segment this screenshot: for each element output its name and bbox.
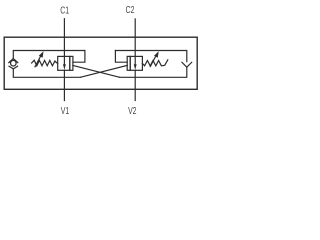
wire left check branch bottom — [13, 69, 80, 77]
wire RV2 cross pilot diagonal — [80, 65, 127, 77]
check valve CV1 ball — [11, 60, 17, 66]
label C1 — [60, 4, 69, 16]
relief valve RV1 flow arrow — [63, 56, 65, 65]
wire RV1 cross pilot diagonal — [73, 65, 120, 77]
svg-text:V1: V1 — [61, 105, 70, 117]
wire left check branch top — [13, 51, 85, 59]
relief valve RV1 pilot piston — [70, 56, 73, 70]
wire right check branch bottom — [120, 67, 187, 77]
svg-text:V2: V2 — [128, 105, 137, 117]
svg-text:C1: C1 — [60, 4, 69, 16]
wire C2 port line — [134, 19, 136, 57]
svg-text:C2: C2 — [126, 4, 135, 16]
spring S2 — [142, 60, 167, 66]
wire C1 port line — [63, 19, 65, 57]
spring S1 — [32, 60, 58, 66]
wire RV1 pilot hook — [73, 51, 85, 63]
wire V2 port line — [134, 70, 136, 100]
adjustment arrow A2 — [150, 55, 156, 67]
check valve CV1 seat upper — [9, 59, 18, 63]
wire right check branch top — [115, 51, 186, 62]
relief valve RV2 pilot piston — [127, 56, 130, 70]
label V1 — [61, 105, 70, 117]
adjustment arrow A1 — [35, 55, 41, 67]
relief valve RV2 body — [130, 56, 142, 70]
relief valve RV2 flow arrow — [134, 56, 136, 65]
valve body boundary — [4, 37, 197, 89]
wire V1 port line — [63, 70, 65, 100]
check valve CV1 seat lower — [9, 66, 18, 69]
check valve CV2 seat — [182, 62, 192, 67]
label V2 — [128, 105, 137, 117]
wire RV2 pilot hook — [115, 51, 127, 63]
label C2 — [126, 4, 135, 16]
relief valve RV1 body — [58, 56, 70, 70]
